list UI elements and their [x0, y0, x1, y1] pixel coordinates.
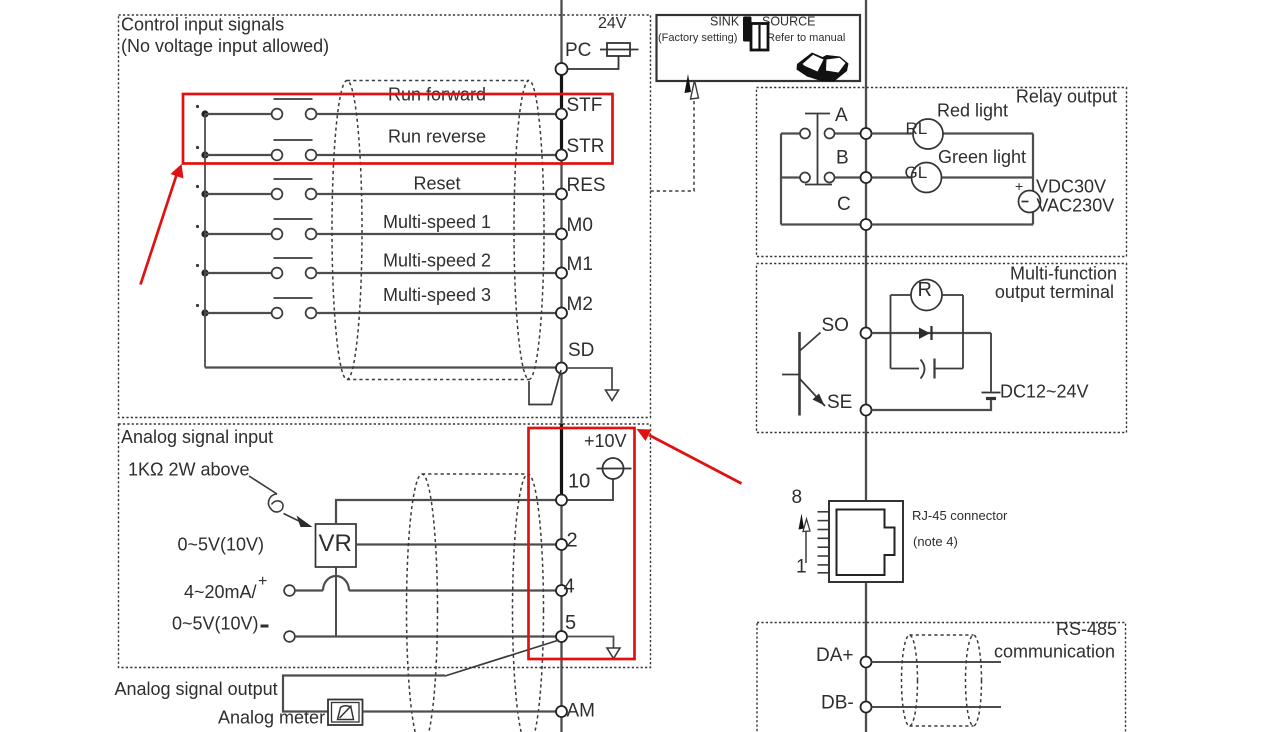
svg-text:RES: RES: [567, 175, 606, 196]
svg-text:+10V: +10V: [584, 431, 627, 451]
svg-text:VAC230V: VAC230V: [1037, 196, 1115, 216]
analog meter symbol: [328, 700, 363, 726]
current input - terminal: [284, 631, 295, 642]
label minus: [261, 625, 269, 628]
svg-text:Multi-speed 3: Multi-speed 3: [383, 285, 491, 305]
svg-text:24V: 24V: [598, 15, 627, 32]
wire to battery: [990, 333, 992, 392]
svg-text:4~20mA/: 4~20mA/: [184, 582, 257, 602]
battery DC12-24V: [982, 392, 1001, 394]
svg-text:PC: PC: [565, 40, 591, 61]
wire C row: [872, 223, 1034, 225]
wire VR bottom to common: [335, 567, 337, 637]
wire B row: [872, 176, 1034, 178]
wire control terminal bus: [560, 0, 562, 732]
svg-text:0~5V(10V): 0~5V(10V): [178, 535, 265, 555]
svg-text:4: 4: [564, 576, 575, 598]
svg-text:DB-: DB-: [821, 693, 854, 714]
wire highlighted bus segment terminal 10: [560, 424, 563, 499]
wire SO row: [872, 332, 992, 334]
svg-text:RJ-45 connector: RJ-45 connector: [912, 508, 1008, 523]
switch M2 input: [196, 298, 317, 318]
leader with loop to VR: [249, 476, 300, 522]
wire battery to SE: [872, 400, 992, 410]
svg-text:SO: SO: [822, 315, 849, 336]
switch RES input: [196, 179, 317, 199]
MULTI-FUNCTION box: [757, 264, 1127, 433]
svg-text:RS-485: RS-485: [1056, 619, 1117, 639]
svg-text:output terminal: output terminal: [995, 282, 1114, 302]
wire PC to 24V supply: [568, 56, 619, 69]
+10V source symbol: [597, 458, 632, 479]
svg-text:R: R: [918, 279, 932, 301]
wire RES to terminal: [317, 193, 557, 195]
terminal M1: [556, 268, 567, 279]
wire row4 left: [295, 589, 323, 591]
svg-text:Multi-speed 2: Multi-speed 2: [383, 251, 491, 271]
wire M1 to terminal: [317, 272, 557, 274]
analog signal input box: [119, 424, 651, 668]
shield drain to terminal 5: [445, 640, 559, 676]
wire common to SD: [205, 366, 557, 368]
terminal PC: [556, 63, 568, 75]
svg-text:Red light: Red light: [937, 101, 1008, 121]
jumper icon: [743, 17, 752, 42]
svg-text:A: A: [835, 105, 848, 126]
svg-text:GL: GL: [905, 163, 928, 182]
wire STR to terminal: [317, 154, 557, 156]
wire left common bus: [204, 114, 206, 368]
switch M0 input: [196, 219, 317, 239]
terminal M2: [556, 308, 567, 319]
svg-text:Run reverse: Run reverse: [388, 127, 486, 147]
wire DA+: [872, 661, 1002, 663]
svg-text:1KΩ 2W above: 1KΩ 2W above: [128, 460, 250, 480]
switch STR input: [196, 140, 317, 160]
SINK SOURCE box: [657, 15, 861, 81]
svg-text:8: 8: [792, 487, 803, 508]
svg-text:(note 4): (note 4): [913, 534, 958, 549]
wire meter to AM: [363, 710, 557, 712]
svg-text:SOURCE: SOURCE: [762, 15, 815, 29]
potentiometer VR: [316, 524, 357, 567]
terminal SD: [556, 363, 567, 374]
lamp RL: [913, 119, 943, 149]
RELAY OUTPUT box: [757, 88, 1127, 257]
control input signals box: [119, 15, 651, 418]
red highlight box STF STR: [183, 94, 613, 164]
terminal 2: [556, 539, 567, 550]
svg-text:STR: STR: [567, 136, 605, 157]
svg-text:5: 5: [565, 612, 576, 634]
terminal DA+: [861, 657, 872, 668]
wire STF to terminal: [317, 113, 557, 115]
red arrow to STF STR: [141, 175, 177, 285]
svg-text:Analog signal input: Analog signal input: [121, 427, 273, 447]
wire SD to ground: [567, 368, 612, 390]
svg-text:RL: RL: [906, 119, 928, 138]
wire M0 to terminal: [317, 233, 557, 235]
svg-text:VR: VR: [319, 530, 352, 557]
snubber loop: [891, 295, 964, 369]
wire VR top to terminal 10: [336, 500, 557, 524]
wire row5 to terminal 5: [295, 635, 557, 637]
switch STF input: [196, 99, 317, 119]
svg-text:SINK: SINK: [710, 15, 740, 29]
terminal SE: [861, 405, 872, 416]
svg-text:Analog signal output: Analog signal output: [115, 679, 278, 699]
RJ45 connector: [829, 501, 903, 582]
ground analog: [607, 648, 620, 659]
svg-text:SD: SD: [568, 340, 594, 361]
svg-text:Green light: Green light: [938, 147, 1026, 167]
wire right vertical: [1032, 134, 1034, 225]
book icon: [797, 53, 849, 82]
shield cable control: [332, 81, 544, 380]
wire A row: [872, 132, 1034, 134]
terminal AM: [556, 706, 567, 717]
relay coil R: [911, 280, 942, 311]
svg-text:2: 2: [567, 530, 578, 552]
shield cable analog: [407, 474, 544, 732]
svg-text:(Factory setting): (Factory setting): [658, 32, 737, 44]
svg-text:10: 10: [568, 471, 590, 493]
capacitor: [921, 360, 925, 379]
svg-text:1: 1: [796, 557, 807, 578]
svg-text:+: +: [258, 573, 267, 590]
svg-text:(No voltage input allowed): (No voltage input allowed): [121, 36, 329, 56]
svg-text:Reset: Reset: [413, 174, 460, 194]
ground control: [606, 390, 619, 401]
terminal M0: [556, 229, 567, 240]
svg-text:M0: M0: [567, 215, 593, 236]
wire M2 to terminal: [317, 312, 557, 314]
lamp GL: [912, 163, 942, 193]
svg-text:M1: M1: [567, 254, 593, 275]
svg-text:Multi-function: Multi-function: [1010, 264, 1117, 284]
svg-text:C: C: [837, 194, 851, 215]
svg-text:0~5V(10V): 0~5V(10V): [172, 614, 259, 634]
dashed pointer to sink source: [651, 99, 695, 191]
wire highlighted bus segment PC-STR: [560, 66, 563, 157]
transistor open collector: [782, 332, 825, 416]
24V supply symbol: [600, 43, 639, 56]
svg-text:STF: STF: [567, 95, 603, 116]
wire DB-: [872, 706, 1002, 708]
diode: [919, 328, 930, 340]
contact linkage: [805, 114, 832, 185]
terminal STR: [556, 150, 567, 161]
wire meter loop: [283, 676, 445, 712]
svg-text:DC12~24V: DC12~24V: [1000, 382, 1089, 402]
terminal 5: [556, 631, 567, 642]
RJ45 pins: [818, 512, 830, 573]
wire terminal 5 to ground: [568, 637, 614, 649]
svg-text:Relay output: Relay output: [1016, 87, 1117, 107]
shield drain to SD: [529, 370, 561, 405]
svg-text:Refer to manual: Refer to manual: [767, 32, 845, 44]
svg-text:communication: communication: [994, 642, 1115, 662]
svg-text:M2: M2: [567, 294, 593, 315]
terminal C: [861, 219, 872, 230]
terminal 4: [556, 585, 567, 596]
red arrow to analog terminals: [649, 435, 742, 484]
pin numbering arrow: [805, 531, 807, 563]
source VDC30V VAC230V: [1019, 191, 1041, 213]
wire terminal 10 to +10V source: [568, 479, 614, 500]
RS-485 box: [757, 623, 1126, 732]
switch M1 input: [196, 258, 317, 278]
terminal 10: [556, 495, 567, 506]
terminal STF: [556, 109, 567, 120]
terminal B: [861, 172, 872, 183]
wire hop over VR lead: [323, 576, 349, 591]
terminal SO: [861, 328, 872, 339]
svg-text:Control input signals: Control input signals: [121, 15, 284, 35]
wire output terminal bus: [865, 0, 867, 732]
terminal DB-: [861, 702, 872, 713]
current input + terminal: [284, 585, 295, 596]
terminal A: [861, 128, 872, 139]
svg-text:+: +: [1015, 178, 1023, 194]
svg-text:B: B: [836, 148, 849, 169]
svg-text:DA+: DA+: [816, 645, 854, 666]
svg-text:SE: SE: [827, 392, 852, 413]
terminal RES: [556, 189, 567, 200]
shield cable RS485: [902, 635, 982, 726]
red highlight box analog terminals: [529, 428, 635, 659]
svg-text:VDC30V: VDC30V: [1036, 177, 1106, 197]
svg-text:AM: AM: [567, 701, 596, 722]
svg-text:Multi-speed 1: Multi-speed 1: [383, 212, 491, 232]
wire VR wiper to terminal 2: [356, 543, 557, 545]
wire row4 to terminal 4: [349, 589, 557, 591]
relay contacts: [781, 134, 861, 225]
